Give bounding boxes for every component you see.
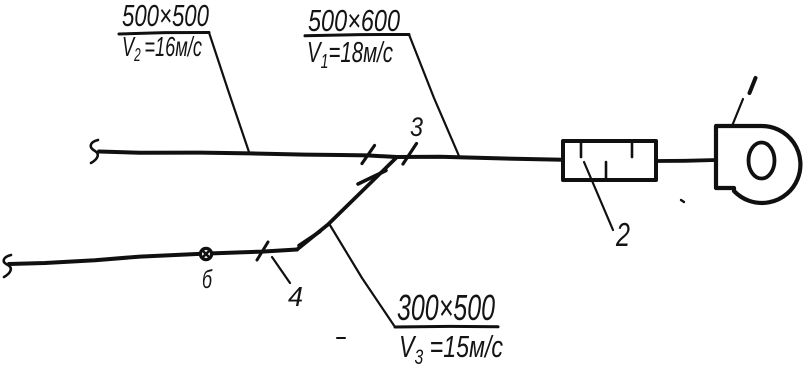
tick section mark on branch riser near bend: [299, 232, 320, 246]
label fraction bar 500x600: [305, 35, 409, 36]
svg-text:V3 =15м/с: V3 =15м/с: [399, 329, 503, 369]
svg-text:3: 3: [410, 112, 423, 142]
svg-text:500×500: 500×500: [122, 0, 209, 33]
tick section mark at junction node 3: [403, 144, 417, 165]
label fraction bar 500x500: [119, 33, 209, 35]
wire lower branch duct line: [9, 250, 297, 265]
label 1 (slash-style digit): [750, 78, 756, 93]
svg-text:300×500: 300×500: [397, 287, 495, 328]
flexible connector box 2: [563, 141, 656, 180]
wire duct from box to fan: [656, 160, 716, 161]
label fraction bar 300x500: [395, 325, 498, 329]
svg-text:500×600: 500×600: [308, 3, 400, 38]
svg-text:2: 2: [615, 216, 630, 253]
leader line from branch riser to 300x500 label: [329, 224, 395, 328]
tick section mark on branch riser: [358, 171, 386, 185]
leader line from box to label 2: [584, 162, 613, 230]
tick section mark on main duct left of junction: [362, 146, 375, 164]
tick section mark on lower duct (node 4): [257, 242, 268, 260]
wire main duct top line: [99, 152, 563, 160]
fan outlet opening oval: [749, 143, 775, 179]
svg-text:б: б: [202, 264, 213, 294]
wire branch riser from lower duct to junction 3: [297, 157, 397, 250]
fan volute outline (component 1): [716, 126, 800, 203]
damper symbol on lower duct: [200, 248, 211, 259]
leader line to label 4: [272, 257, 290, 283]
break squiggle left end of lower duct: [4, 255, 11, 277]
svg-text:V1=18м/с: V1=18м/с: [307, 37, 393, 73]
svg-text:4: 4: [288, 281, 303, 312]
leader line to label 1: [732, 99, 743, 126]
leader line from 500x500 label to duct: [209, 33, 249, 153]
svg-text:V2 =16м/с: V2 =16м/с: [122, 31, 202, 65]
leader line from 500x600 label to duct: [409, 35, 459, 157]
speck dash below 4: [337, 337, 345, 339]
speck near fan: [681, 200, 684, 202]
break squiggle left end of main duct: [91, 140, 98, 163]
